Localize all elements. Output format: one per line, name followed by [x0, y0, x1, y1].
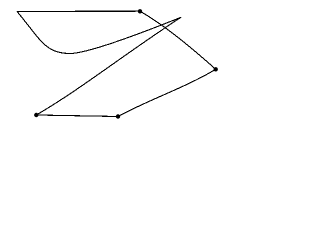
node D [34, 113, 38, 117]
wire: straight edge from node D to node E [36, 115, 118, 117]
node B [214, 67, 218, 71]
wire: straight edge from tip T down to node D [36, 17, 181, 115]
wire: curved edge from corner P1 swooping down and rising to tip T [17, 11, 181, 53]
node E [116, 114, 120, 118]
wire: straight edge from node E up to node B [118, 69, 216, 116]
wire: straight edge from node A left to corner P1 [17, 10, 140, 12]
wire: curved edge from node A down to node B [140, 11, 216, 69]
node A [138, 9, 142, 13]
